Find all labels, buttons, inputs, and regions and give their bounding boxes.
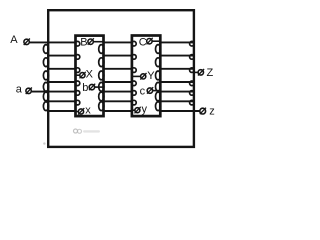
svg-text:B: B [80, 36, 87, 48]
svg-text:c: c [140, 86, 146, 98]
svg-text:z: z [209, 106, 215, 118]
svg-text:Y: Y [147, 70, 155, 82]
svg-text:X: X [86, 69, 94, 81]
svg-text:A: A [10, 34, 18, 46]
svg-text:y: y [142, 103, 148, 115]
svg-text:C: C [139, 36, 147, 48]
svg-text:a: a [16, 83, 23, 95]
svg-text:b: b [82, 82, 88, 94]
svg-text:Z: Z [207, 67, 214, 79]
svg-text:x: x [85, 105, 91, 117]
